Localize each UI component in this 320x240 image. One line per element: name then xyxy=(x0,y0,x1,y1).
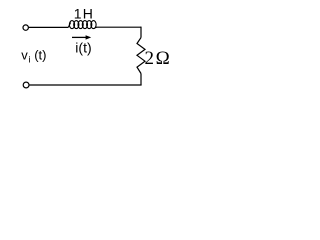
svg-text:Ω: Ω xyxy=(156,48,170,69)
terminal (top-left, open circle) xyxy=(23,25,28,30)
svg-text:i(t): i(t) xyxy=(75,39,91,55)
svg-text:1: 1 xyxy=(74,6,82,22)
wire (resistor to bottom-right corner) xyxy=(140,74,142,86)
wire (inductor to top-right corner) xyxy=(96,26,141,28)
wire (top, terminal to inductor) xyxy=(29,26,69,28)
terminal (bottom-left, open circle) xyxy=(23,82,29,88)
arrow i(t) current direction xyxy=(72,36,87,38)
inductor L 1H (coil) xyxy=(68,21,96,29)
svg-text:H: H xyxy=(83,6,93,22)
wire (right, corner down to resistor) xyxy=(140,27,142,38)
wire (bottom) xyxy=(29,84,141,86)
svg-text:2: 2 xyxy=(145,48,155,69)
resistor R 2ohm (zigzag) xyxy=(137,38,145,74)
svg-text:vi(t): vi(t) xyxy=(21,48,46,66)
